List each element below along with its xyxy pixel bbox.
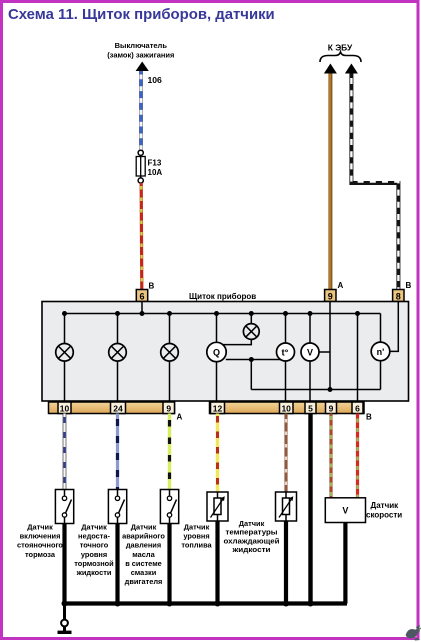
svg-text:двигателя: двигателя <box>125 577 163 586</box>
fuse F13 10A <box>136 155 145 178</box>
wire red/green pin9B to speed sensor <box>329 414 332 498</box>
pin 6 (connector B) top <box>136 290 147 302</box>
label S1 <box>17 522 63 559</box>
wire brown to pin 9 A <box>328 74 332 290</box>
gauge V voltmeter <box>301 343 319 361</box>
svg-text:B: B <box>366 413 372 422</box>
svg-text:12: 12 <box>213 404 223 414</box>
svg-text:точного: точного <box>80 541 109 550</box>
svg-text:n': n' <box>377 347 385 357</box>
svg-text:V: V <box>307 348 313 358</box>
svg-text:A: A <box>338 281 344 290</box>
sensor S1 parking brake switch <box>55 490 73 524</box>
wire yellow/red pin12 to S4 <box>216 414 219 493</box>
sensor S2 brake fluid level switch <box>108 490 126 524</box>
wire black/white to pin 8 <box>351 74 398 290</box>
arrow to EBU (left) <box>324 64 337 74</box>
wire top pin9 internal drop <box>329 302 331 390</box>
node: ignition switch label <box>107 41 174 60</box>
wire lamp1 drop <box>64 314 66 402</box>
gauge Q fuel <box>207 342 226 361</box>
wire ground S1 <box>62 524 66 604</box>
svg-text:Датчик: Датчик <box>131 522 157 531</box>
wire V gauge drop <box>309 314 311 402</box>
wire red/yellow from fuse to pin 6 <box>140 183 144 290</box>
pin 8 (connector B) top <box>393 290 404 302</box>
svg-text:24: 24 <box>113 404 123 414</box>
pin 9 (connector A) top <box>325 290 336 302</box>
svg-text:давления: давления <box>126 541 161 550</box>
connector circle above fuse F13 <box>138 150 143 155</box>
label S5 <box>224 519 280 554</box>
wire red/green pin6B to speed sensor <box>356 414 359 498</box>
svg-text:9: 9 <box>329 404 334 414</box>
pin 6 connector B <box>352 402 363 414</box>
junction lower link <box>328 387 333 392</box>
brace over EBU arrows <box>320 52 361 62</box>
wire ground S5 <box>284 521 288 604</box>
svg-text:недоста-: недоста- <box>78 532 111 541</box>
svg-text:9: 9 <box>166 404 171 414</box>
label F13 10A <box>148 159 163 178</box>
label S3 <box>122 522 165 586</box>
svg-text:10A: 10A <box>148 168 163 177</box>
wire ground S6 <box>343 523 347 604</box>
pin 10 connector B <box>280 402 294 414</box>
svg-text:масла: масла <box>132 550 155 559</box>
lamp L2 <box>109 344 127 362</box>
connector strip A <box>49 402 175 414</box>
svg-text:жидкости: жидкости <box>76 568 112 577</box>
svg-text:Датчик: Датчик <box>184 522 210 531</box>
svg-text:охлаждающей: охлаждающей <box>224 536 280 545</box>
wire pin6 to bus <box>141 302 143 314</box>
wire pin6B riser <box>357 314 359 402</box>
junction dots ground bus <box>62 601 314 607</box>
wire white/blue pin10A to S1 <box>63 414 67 490</box>
wire lamp4 drop <box>250 314 252 325</box>
pin 24 connector A <box>111 402 126 414</box>
wire lamp2 drop <box>117 314 119 402</box>
pin 5 connector B <box>305 402 316 414</box>
svg-text:скорости: скорости <box>366 510 402 519</box>
wire blue pin24 to S2 <box>116 414 119 490</box>
gauge n' tachometer <box>371 342 390 361</box>
svg-text:106: 106 <box>148 75 163 85</box>
wire junction drop <box>250 360 252 390</box>
label S6 <box>366 501 402 519</box>
svg-text:тормозной: тормозной <box>74 559 114 568</box>
svg-text:Щиток приборов: Щиток приборов <box>189 292 256 301</box>
svg-text:топлива: топлива <box>181 541 212 550</box>
svg-text:t°: t° <box>282 348 289 359</box>
svg-text:8: 8 <box>396 292 401 302</box>
ground symbol <box>58 604 72 633</box>
svg-text:A: A <box>177 413 183 422</box>
svg-text:аварийного: аварийного <box>122 532 165 541</box>
svg-text:Схема 11. Щиток приборов, датч: Схема 11. Щиток приборов, датчики <box>8 7 275 23</box>
wire Q gauge drop <box>216 314 218 402</box>
pin 9 connector A <box>163 402 175 414</box>
sensor S4 fuel level rheostat <box>207 492 228 521</box>
wire ground pin5 thick black <box>308 414 312 604</box>
connector strip B <box>210 402 365 414</box>
wire n' bottom <box>380 361 382 390</box>
svg-text:B: B <box>406 281 412 290</box>
wire pin8 to n' <box>390 302 399 352</box>
svg-text:уровня: уровня <box>81 550 107 559</box>
svg-text:в системе: в системе <box>125 559 162 568</box>
wire ground S3 <box>167 524 171 604</box>
gauge t temperature <box>277 343 295 361</box>
svg-text:температуры: температуры <box>226 528 278 537</box>
junction Q-t line <box>249 357 254 362</box>
label S4 <box>181 522 212 549</box>
sensor S5 coolant temperature rheostat <box>276 492 297 521</box>
pin 10 connector A <box>58 402 71 414</box>
lamp L3 <box>161 344 179 362</box>
instrument cluster box <box>42 302 409 402</box>
svg-text:10: 10 <box>281 404 291 414</box>
pin 9 connector B <box>326 402 337 414</box>
svg-text:Выключатель: Выключатель <box>115 41 168 50</box>
arrow to ignition switch <box>136 62 149 72</box>
wire yellow-green pin9A to S3 <box>168 414 171 490</box>
lamp L1 <box>56 344 74 362</box>
wire lamp3 drop <box>169 314 171 402</box>
svg-text:тормоза: тормоза <box>25 550 56 559</box>
pin 12 connector B <box>211 402 225 414</box>
wire internal bus <box>65 313 381 315</box>
wire V to pin9 line <box>319 351 330 353</box>
svg-text:стояночного: стояночного <box>17 541 63 550</box>
wire Q to t gauge <box>226 359 281 361</box>
svg-text:9: 9 <box>328 292 333 302</box>
svg-text:10: 10 <box>60 404 70 414</box>
junction dots on bus <box>62 311 360 316</box>
label S2 <box>74 522 114 577</box>
sensor S3 oil pressure switch <box>160 490 178 524</box>
wire 106 blue/white from ignition switch <box>139 71 143 151</box>
svg-text:F13: F13 <box>148 159 162 168</box>
wire ground S2 <box>115 524 119 604</box>
svg-text:(замок) зажигания: (замок) зажигания <box>107 51 174 60</box>
svg-text:6: 6 <box>139 292 144 302</box>
wire brown/white pin10B to S5 <box>284 414 287 493</box>
wire ground S4 <box>215 521 219 604</box>
svg-text:уровня: уровня <box>183 532 209 541</box>
watermark icon <box>406 625 421 641</box>
svg-text:5: 5 <box>308 404 313 414</box>
wire lamp4 to Q <box>223 339 252 345</box>
lamp L4 <box>243 324 259 340</box>
wire lower link <box>251 389 380 391</box>
wire t gauge drop <box>285 314 287 402</box>
svg-text:V: V <box>342 506 348 516</box>
connector circle below fuse F13 <box>138 178 143 183</box>
svg-text:смазки: смазки <box>131 568 157 577</box>
svg-text:Q: Q <box>213 348 220 358</box>
arrow to EBU (right) <box>345 64 358 74</box>
svg-text:Датчик: Датчик <box>81 522 107 531</box>
svg-text:жидкости: жидкости <box>231 545 271 554</box>
svg-text:включения: включения <box>20 532 61 541</box>
wire bus to n' gauge <box>380 314 382 343</box>
svg-text:Датчик: Датчик <box>371 501 400 510</box>
wire ground bus <box>65 601 348 605</box>
svg-text:B: B <box>149 282 155 291</box>
svg-text:6: 6 <box>355 404 360 414</box>
svg-text:Датчик: Датчик <box>239 519 265 528</box>
svg-text:Датчик: Датчик <box>27 522 53 531</box>
sensor S6 speed sensor <box>325 498 365 523</box>
